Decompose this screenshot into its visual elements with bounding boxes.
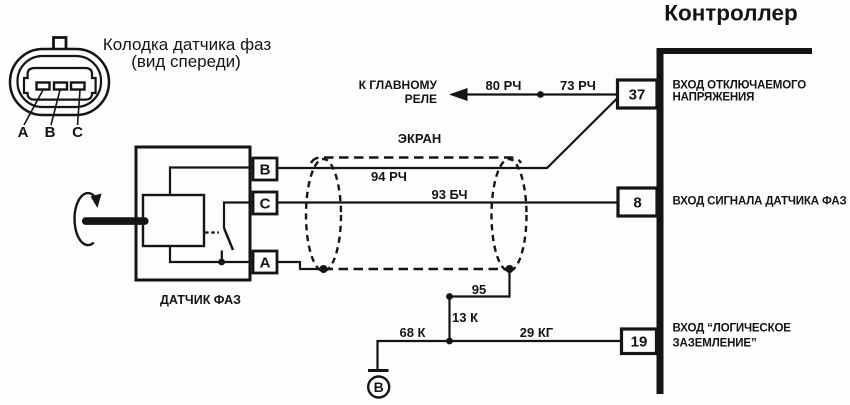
junction dot 13К/68К/29КГ xyxy=(446,338,453,345)
svg-text:C: C xyxy=(72,124,83,141)
connector pin cavity B xyxy=(54,83,67,90)
shield right ellipse xyxy=(492,159,527,271)
pin 19 xyxy=(622,329,657,354)
connector tab (top lug of колодка) xyxy=(54,38,67,51)
wire terminal A to shield xyxy=(277,262,324,269)
svg-text:B: B xyxy=(260,162,271,179)
terminal A xyxy=(253,251,277,273)
wire 95 from shield to junction xyxy=(450,269,510,297)
svg-text:19: 19 xyxy=(631,334,648,351)
svg-text:РЕЛЕ: РЕЛЕ xyxy=(405,92,437,106)
svg-text:Контроллер: Контроллер xyxy=(664,1,798,26)
switch blade xyxy=(224,228,233,250)
svg-text:ЗАЗЕМЛЕНИЕ”: ЗАЗЕМЛЕНИЕ” xyxy=(673,338,757,350)
svg-text:68 К: 68 К xyxy=(399,325,425,340)
svg-text:В: В xyxy=(374,379,384,395)
junction dot on wire A xyxy=(218,259,225,266)
wire 29 КГ to pin 19 xyxy=(450,340,623,342)
svg-text:(вид спереди): (вид спереди) xyxy=(131,52,241,71)
connector keyway outline xyxy=(24,68,96,100)
wire 73 РЧ / 80 РЧ to main relay xyxy=(452,93,618,95)
connector pin cavity A xyxy=(37,83,50,90)
svg-text:37: 37 xyxy=(629,87,646,104)
connector outer oval xyxy=(10,49,109,115)
svg-text:94 РЧ: 94 РЧ xyxy=(371,169,407,184)
internal wire to terminal B xyxy=(170,168,253,196)
sensor element (inner block) xyxy=(143,195,204,246)
internal wire to terminal C xyxy=(224,203,253,229)
switch actuation dashed link xyxy=(205,231,219,233)
switch lower contact xyxy=(221,251,223,263)
svg-text:B: B xyxy=(45,124,56,141)
leader line pin B xyxy=(51,90,60,125)
svg-text:80 РЧ: 80 РЧ xyxy=(486,78,522,93)
leader line pin A xyxy=(24,90,43,125)
svg-text:73 РЧ: 73 РЧ xyxy=(560,78,596,93)
shaft xyxy=(82,217,149,225)
terminal C xyxy=(253,192,277,214)
svg-text:29 КГ: 29 КГ xyxy=(520,325,554,340)
connector middle oval xyxy=(18,56,102,107)
svg-text:8: 8 xyxy=(633,195,641,212)
svg-text:ВХОД “ЛОГИЧЕСКОЕ: ВХОД “ЛОГИЧЕСКОЕ xyxy=(673,323,792,335)
shield left junction dot xyxy=(320,265,328,273)
internal wire to terminal A xyxy=(170,246,253,262)
wire 94 РЧ from terminal B to pin 37 xyxy=(277,99,617,169)
svg-text:A: A xyxy=(18,124,29,141)
shield bottom dashed line xyxy=(324,268,510,270)
ground point B circle xyxy=(368,377,389,398)
pin 8 xyxy=(618,188,657,216)
shield top dashed line xyxy=(311,158,521,164)
shield left ellipse xyxy=(306,159,341,271)
sensor body ДАТЧИК ФАЗ xyxy=(136,147,250,280)
rotation arrow xyxy=(74,193,95,245)
svg-text:ВХОД СИГНАЛА ДАТЧИКА ФАЗ: ВХОД СИГНАЛА ДАТЧИКА ФАЗ xyxy=(673,196,847,208)
ground bar xyxy=(368,369,389,372)
svg-text:НАПРЯЖЕНИЯ: НАПРЯЖЕНИЯ xyxy=(673,92,755,104)
junction dot 80РЧ/73РЧ xyxy=(537,91,544,98)
pin 37 xyxy=(618,80,658,108)
terminal B xyxy=(253,158,277,180)
svg-text:95: 95 xyxy=(472,282,486,297)
leader line pin C xyxy=(78,90,81,125)
connector pin cavity C xyxy=(71,83,85,90)
shield right junction dot xyxy=(506,265,514,273)
svg-text:К ГЛАВНОМУ: К ГЛАВНОМУ xyxy=(359,78,438,92)
controller edge vertical xyxy=(657,48,664,394)
svg-text:13 К: 13 К xyxy=(452,310,478,325)
svg-text:ЭКРАН: ЭКРАН xyxy=(398,131,442,146)
arrowhead to main relay xyxy=(449,88,468,101)
svg-text:A: A xyxy=(260,255,271,272)
svg-text:93 БЧ: 93 БЧ xyxy=(431,187,467,202)
svg-text:ВХОД ОТКЛЮЧАЕМОГО: ВХОД ОТКЛЮЧАЕМОГО xyxy=(673,80,807,92)
svg-text:ДАТЧИК ФАЗ: ДАТЧИК ФАЗ xyxy=(160,293,241,307)
junction dot 95/13К xyxy=(446,293,453,300)
controller edge top xyxy=(657,48,813,54)
wire 68 К to ground xyxy=(378,341,450,369)
wire 13 К xyxy=(448,297,450,342)
svg-text:C: C xyxy=(260,196,271,213)
wire 93 БЧ from terminal C to pin 8 xyxy=(277,201,618,203)
